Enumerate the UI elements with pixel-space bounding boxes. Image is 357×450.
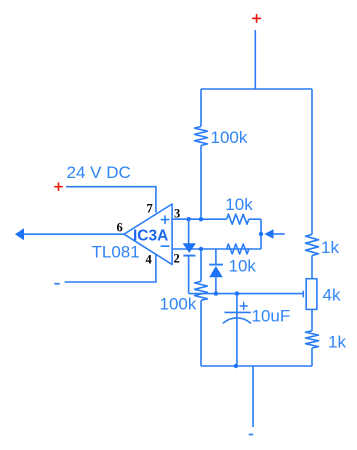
wire top rail right drop — [311, 89, 313, 235]
junction bottom rail/C1 — [234, 364, 238, 368]
resistor R3 1k — [306, 331, 319, 348]
potentiometer RV1 4k body — [306, 279, 317, 310]
svg-text:2: 2 — [174, 251, 180, 265]
diode D1 anode wire — [188, 219, 190, 243]
power flag - (pin 4) — [54, 283, 59, 285]
diode D2 triangle — [209, 266, 223, 277]
power flag + (top supply) — [253, 15, 261, 22]
svg-text:1k: 1k — [321, 238, 339, 257]
junction pin2/RV2 — [199, 247, 203, 251]
op-amp + input mark — [161, 216, 169, 223]
wiper arrow of 10k pot — [264, 229, 273, 239]
svg-text:10k: 10k — [225, 195, 253, 214]
wire R4 to corner — [249, 218, 261, 220]
svg-text:10uF: 10uF — [252, 307, 291, 326]
wire wiper rail — [189, 293, 304, 295]
wire pin2 node down to 100k pot — [200, 249, 202, 281]
capacitor C1 curved plate — [223, 318, 251, 323]
svg-text:4: 4 — [146, 253, 153, 267]
wire 24V to pin 7 — [66, 187, 156, 213]
wire D1 cathode down — [188, 256, 190, 294]
wire wiper tail — [274, 233, 285, 235]
wire 1k to bottom rail — [311, 348, 313, 366]
svg-text:4k: 4k — [323, 286, 341, 305]
resistor R4 10k — [227, 214, 249, 224]
svg-text:1k: 1k — [328, 333, 346, 352]
svg-text:100k: 100k — [160, 295, 197, 314]
wire pin 2 row — [172, 248, 261, 250]
wire right riser of 10k pair — [260, 219, 262, 249]
diode D1 cathode bar — [183, 255, 195, 257]
op-amp U1 IC3A triangle — [124, 204, 172, 265]
diode D1 triangle — [183, 243, 196, 253]
capacitor C1 top plate — [225, 311, 251, 313]
wire ground stem — [252, 366, 254, 427]
power flag + (24 V DC) — [55, 183, 62, 190]
resistor R2 1k — [306, 235, 319, 256]
svg-text:24 V DC: 24 V DC — [67, 163, 131, 182]
wire 100k pot to bottom rail — [200, 300, 202, 366]
wire bottom rail — [201, 365, 312, 367]
svg-text:100k: 100k — [211, 128, 248, 147]
wire output — [23, 233, 124, 235]
junction wiper/C1 — [235, 291, 239, 295]
capacitor C1 plus mark — [240, 303, 247, 310]
junction pin3/D1 — [186, 217, 190, 221]
wire pot to 1k — [311, 309, 313, 330]
power flag - (bottom) — [249, 434, 253, 436]
junction pin3/R1 — [199, 217, 203, 221]
wire supply stem — [254, 30, 256, 89]
wire top rail — [201, 88, 312, 90]
wire R1 to pin3 node — [200, 146, 202, 220]
wire pin 3 row — [172, 218, 227, 220]
junction wiper/D2 — [214, 291, 218, 295]
svg-text:7: 7 — [147, 201, 153, 215]
resistor R1 100k — [195, 127, 208, 146]
op-amp - input mark — [161, 245, 169, 247]
wire D2 anode down — [215, 277, 217, 293]
svg-text:TL081: TL081 — [92, 243, 140, 262]
wiper tap bar of RV1 — [302, 291, 304, 298]
output arrowhead — [15, 228, 24, 240]
svg-text:10k: 10k — [229, 257, 257, 276]
svg-text:6: 6 — [117, 221, 123, 235]
wire 1k to pot — [311, 256, 313, 279]
junction riser/wiper — [259, 232, 263, 236]
resistor R5 10k — [227, 244, 249, 254]
diode D2 cathode wire — [215, 249, 217, 264]
wire pin 4 to minus — [65, 254, 156, 282]
diode D2 cathode bar — [209, 264, 223, 266]
wire top rail left drop — [200, 89, 202, 127]
wire capacitor branch — [236, 294, 238, 366]
potentiometer RV2 100k body — [195, 281, 208, 300]
